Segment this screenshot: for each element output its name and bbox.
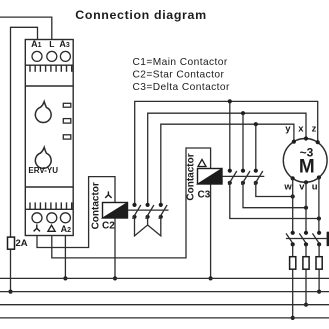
wire C3 coil to control bus [210,184,212,278]
C2 contact 2 [146,203,154,219]
bottom terminal comb ticks [30,202,72,209]
junction delta-u [317,216,321,220]
svg-text:x: x [298,124,304,135]
C3 vertical x [242,113,244,170]
wire motor w to C1 [292,178,294,232]
junction C2 coil on control bus [113,276,117,280]
C3 linkage [222,175,264,177]
motor terminal x [304,136,308,140]
wire fuse1 to L3 bus [292,269,294,318]
terminal star [32,213,42,223]
fuse 2A [8,237,15,249]
motor terminal u [317,175,321,179]
wire B x-phase [148,113,306,205]
junction fuse wire on bus L1 [8,290,12,294]
svg-text:L: L [49,39,54,49]
terminal A2 [60,213,70,223]
svg-text:C1=Main Contactor: C1=Main Contactor [133,57,228,68]
wire star terminal to contactor C2 coil [37,177,115,248]
wire C y-phase [161,124,294,205]
star symbol C2 [105,191,111,198]
wire to terminal A1 [11,27,38,291]
wire C3 to v [243,183,306,208]
C3 vertical z [229,101,231,170]
fuse F3 [316,257,322,270]
wire A z-phase [135,101,318,204]
svg-text:w: w [283,181,292,192]
terminal A3 [60,51,70,61]
wire C3 to u [230,183,319,219]
terminal delta [47,213,57,223]
bus L1 [0,291,329,293]
junction wire B to C3 [241,111,245,115]
svg-text:C2: C2 [102,220,115,231]
star point [135,217,161,236]
svg-text:v: v [299,181,305,192]
coil C3 [198,169,223,185]
svg-text:Contactor: Contactor [186,153,197,200]
junction fuse1 bus [291,316,295,320]
C1 contact 3 [312,231,321,247]
wire fuse3 to L1 bus [318,269,320,291]
wire L supply to terminal L [0,17,52,39]
C3 contact 2 [241,169,250,185]
junction wire A to C3 [228,99,232,103]
wire C1 to fuse 1 [292,244,294,256]
C1 contact 2 [299,231,308,247]
wire delta terminal to contactor C3 coil [52,148,211,258]
control bus N [0,277,329,279]
delta symbol C3 [198,159,206,166]
svg-text:C3=Delta Contactor: C3=Delta Contactor [133,82,230,93]
svg-text:z: z [312,124,317,135]
C2 contact 3 [159,203,167,219]
svg-text:Contactor: Contactor [91,182,102,229]
motor terminal w [291,176,295,180]
motor terminal v [304,180,308,184]
wire C2 coil to control bus [114,218,116,278]
C2 linkage [128,209,169,211]
junction wire C to C3 [254,122,258,126]
svg-text:u: u [312,181,318,192]
bus L2 [0,304,329,306]
svg-text:2A: 2A [16,238,28,249]
svg-text:C2=Star Contactor: C2=Star Contactor [133,70,225,81]
top terminal comb ticks [30,65,72,72]
junction delta-w [291,194,295,198]
svg-text:C3: C3 [198,189,211,200]
wire A2 to control bus [64,236,66,279]
coil C2 [103,203,128,219]
terminal L [47,51,57,61]
knob 2 [35,147,51,168]
junction fuse3 bus [317,290,321,294]
wire C1 to fuse 2 [305,244,307,256]
star symbol under terminal [34,224,40,231]
C3 contact 3 [254,169,263,185]
relay module ERV-YU body [25,40,73,236]
C3 contact 1 [228,169,237,185]
junction fuse2 bus [304,303,308,307]
svg-text:M: M [299,156,315,177]
fuse F1 [290,257,296,270]
motor terminal z [316,140,320,144]
junction C3 coil on control bus [209,276,213,280]
svg-text:ERV-YU: ERV-YU [28,166,58,175]
terminal A1 [32,51,42,61]
C3 vertical y [255,124,257,171]
C2 contact 1 [132,203,140,219]
wire motor v to C1 [305,182,307,233]
wire C3 to w [256,183,293,197]
C1 coil [327,232,329,246]
LED 1 [63,103,71,107]
wire C1 to fuse 3 [318,244,320,256]
fuse F2 [303,257,309,270]
junction delta-v [304,206,308,210]
wire fuse2 to L2 bus [305,269,307,305]
C1 contact 1 [286,231,295,247]
svg-text:y: y [285,124,291,135]
wire motor u to C1 [318,178,320,233]
svg-text:Connection diagram: Connection diagram [75,8,207,22]
knob 1 [35,102,51,123]
bus L3 [0,317,329,319]
junction A2 on control bus [63,276,67,280]
C1 linkage [286,238,327,240]
motor M [283,139,327,183]
delta symbol under terminal [48,225,55,231]
LED 3 [63,135,71,139]
motor terminal y [292,140,296,144]
LED 2 [63,119,71,124]
